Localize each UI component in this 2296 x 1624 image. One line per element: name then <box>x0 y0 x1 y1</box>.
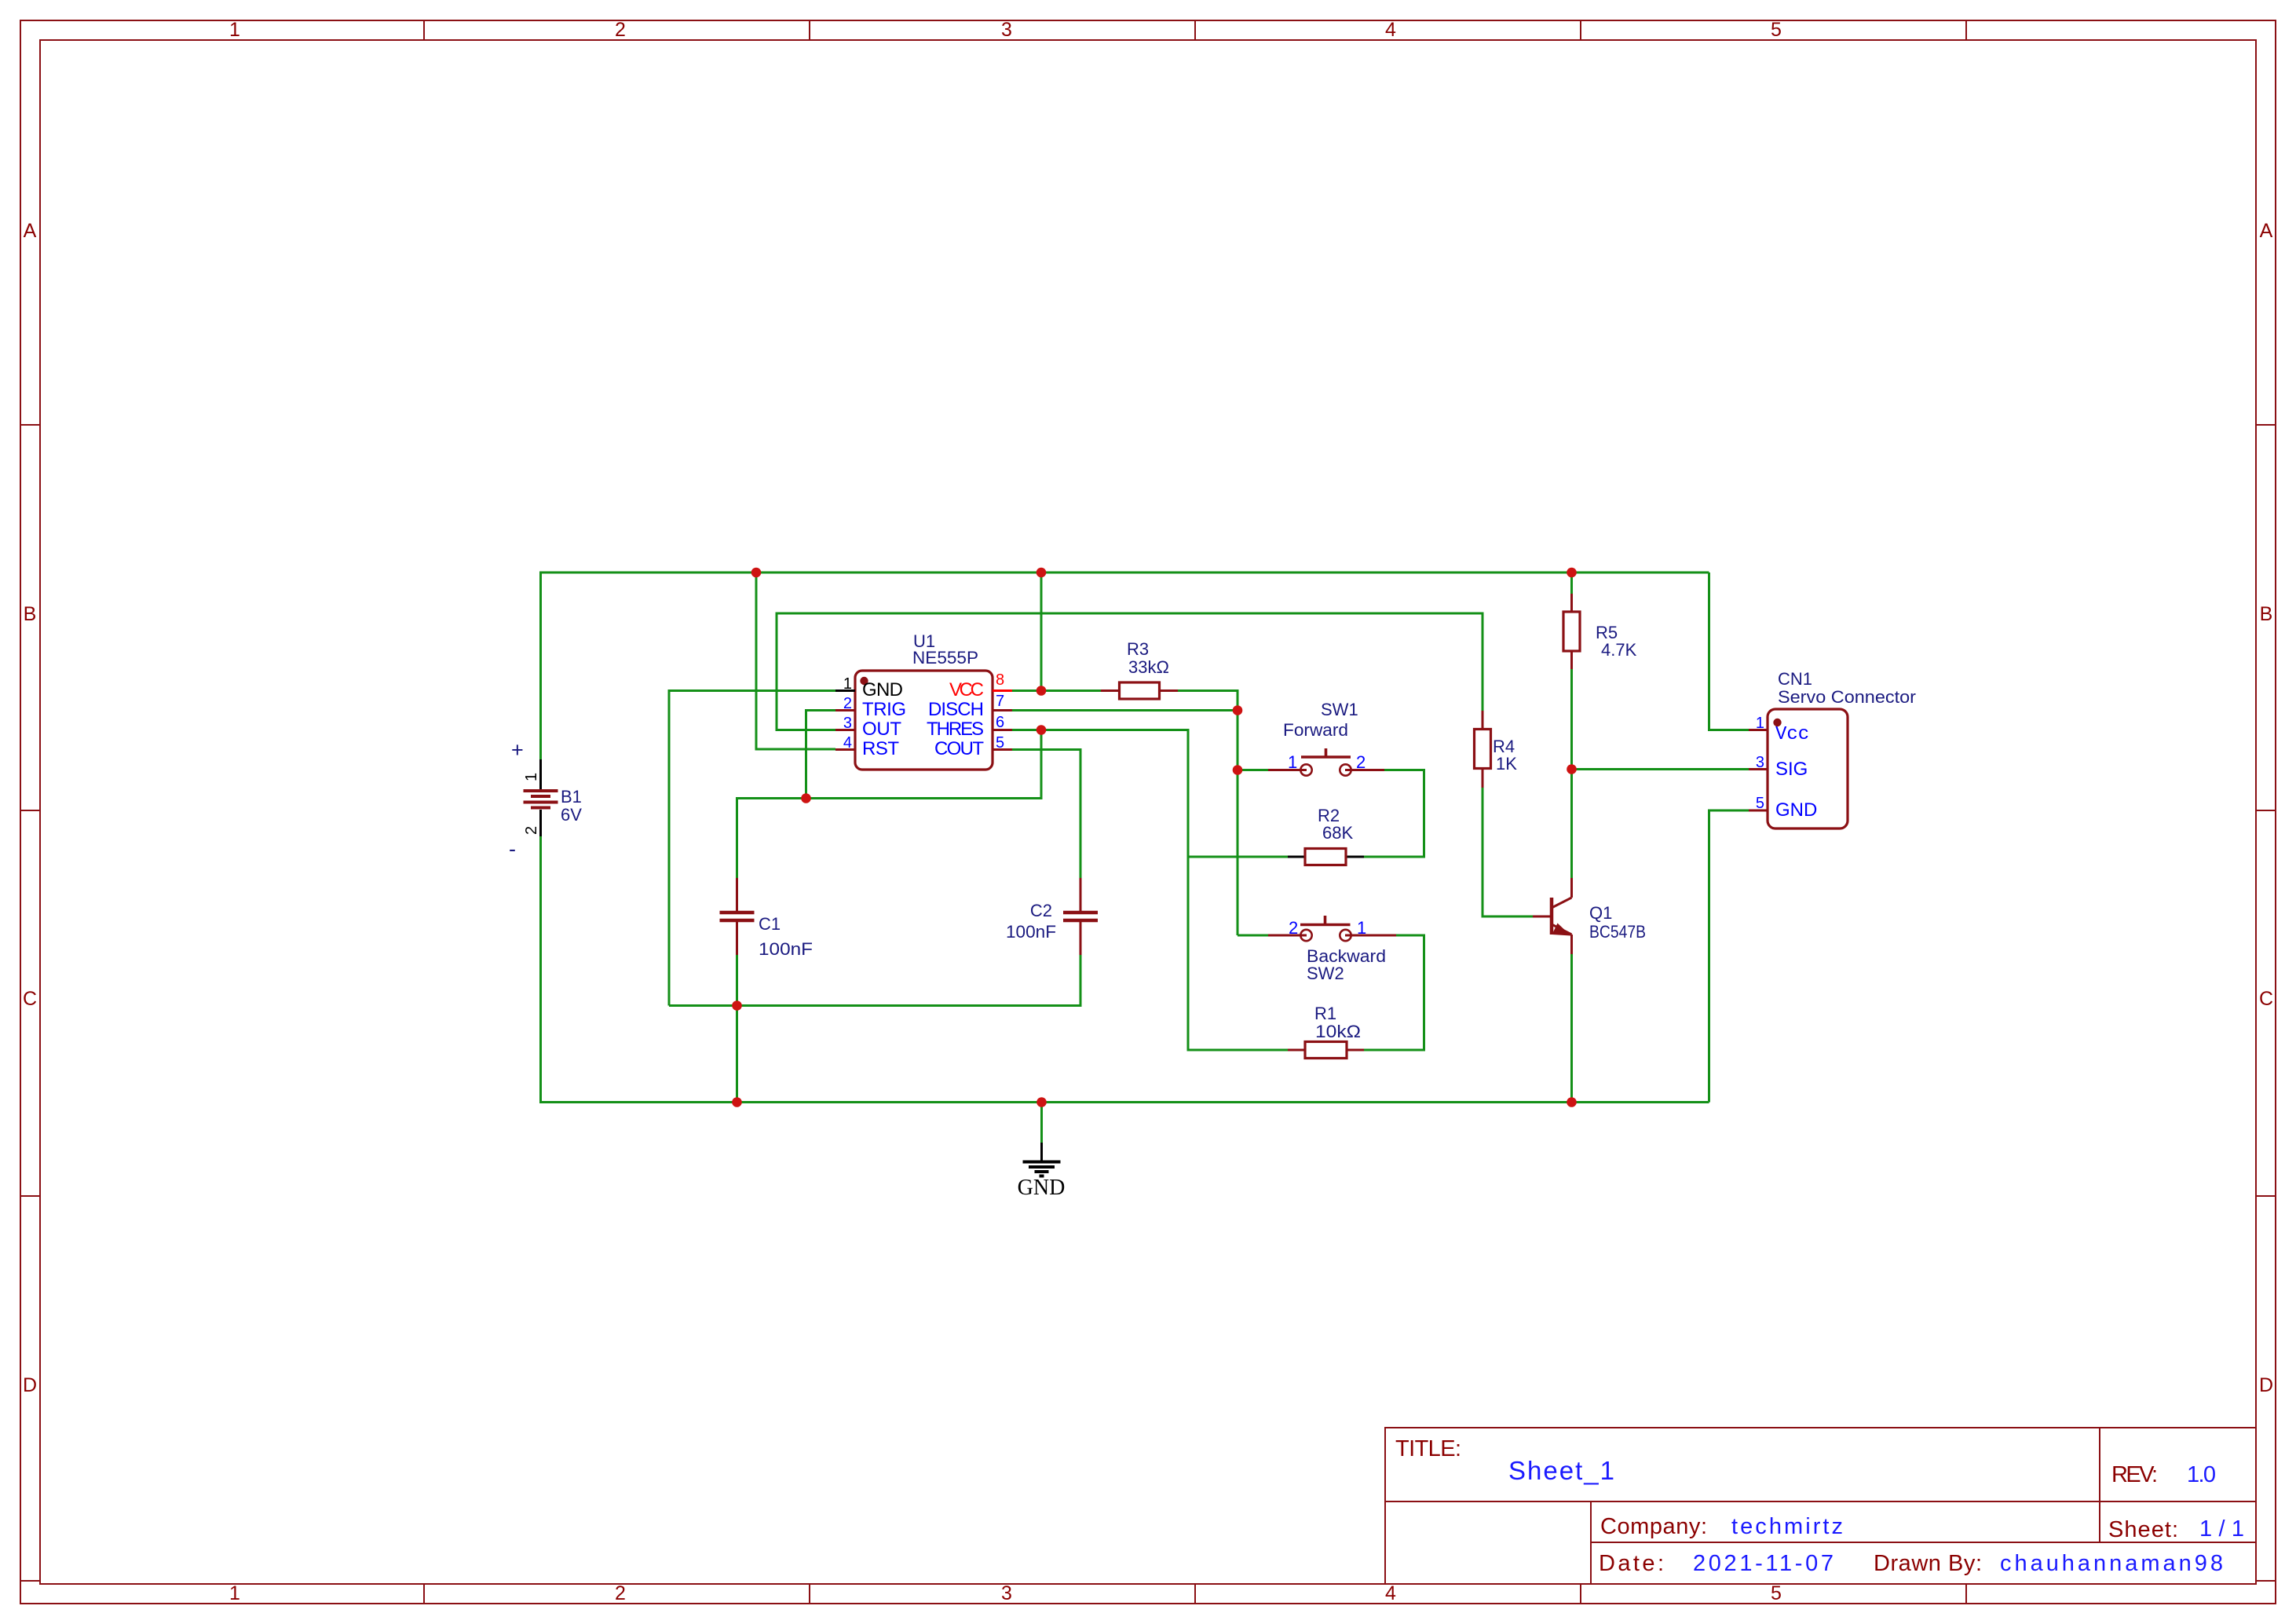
svg-text:3: 3 <box>1756 754 1764 771</box>
wire RST riser <box>756 572 835 749</box>
svg-text:C: C <box>2259 988 2273 1010</box>
border row tick marks left <box>20 425 40 1581</box>
svg-text:2: 2 <box>523 826 540 835</box>
svg-text:B: B <box>2260 603 2273 625</box>
node DISCH/R3 junction <box>1233 705 1243 715</box>
svg-text:NE555P: NE555P <box>912 648 978 668</box>
svg-text:100nF: 100nF <box>759 939 813 959</box>
transistor Q1 BC547B <box>1533 878 1646 954</box>
wire VCC to pin8 <box>1040 572 1043 691</box>
svg-text:4: 4 <box>1385 1582 1396 1604</box>
pin 7 DISCH <box>993 709 1012 711</box>
svg-text:Sheet:: Sheet: <box>2108 1517 2178 1542</box>
node C1 bottom-rail junction <box>732 1097 742 1107</box>
resistor R2 <box>1288 806 1364 865</box>
pin 6 THRES <box>993 729 1012 731</box>
pin 8 VCC <box>993 689 1012 692</box>
svg-text:33kΩ: 33kΩ <box>1128 657 1169 677</box>
ground GND <box>1018 1143 1066 1200</box>
wire THRES to R1 <box>1188 856 1288 1051</box>
wire THRES pin6 <box>1011 730 1188 858</box>
svg-text:GND: GND <box>862 679 903 700</box>
pin 5 GND <box>1749 810 1768 812</box>
pin 2 TRIG <box>835 709 855 711</box>
svg-text:5: 5 <box>1771 1582 1782 1604</box>
wire C1 to bottom rail <box>736 1006 738 1103</box>
wire SW1 pin1 stub <box>1238 769 1268 771</box>
svg-text:5: 5 <box>996 734 1004 752</box>
node SIG junction <box>1567 764 1577 774</box>
wire OUT rail <box>777 613 1483 730</box>
svg-text:2: 2 <box>1289 918 1298 938</box>
svg-text:RST: RST <box>862 738 899 759</box>
svg-text:SIG: SIG <box>1775 759 1808 780</box>
op-amp U1 NE555P timer <box>835 631 1012 770</box>
svg-text:OUT: OUT <box>862 719 901 740</box>
node pin8 junction <box>1036 686 1047 696</box>
svg-text:6V: 6V <box>561 805 582 825</box>
svg-text:5: 5 <box>1756 795 1764 812</box>
svg-text:CN1: CN1 <box>1778 669 1812 689</box>
svg-text:1: 1 <box>1756 715 1764 732</box>
svg-text:Company:: Company: <box>1600 1514 1707 1539</box>
wire THRES to R2 <box>1188 856 1288 858</box>
svg-text:R1: R1 <box>1314 1004 1336 1023</box>
svg-text:1: 1 <box>1357 918 1366 938</box>
wire OUT to R4 top <box>1482 709 1484 712</box>
wire GND symbol stem <box>1040 1103 1043 1143</box>
wire Q1 emitter to GND <box>1570 954 1573 1103</box>
svg-text:C: C <box>23 988 37 1010</box>
pin 5 COUT <box>993 748 1012 751</box>
wire Q1 collector <box>1570 770 1573 879</box>
svg-text:1K: 1K <box>1496 754 1517 774</box>
svg-text:8: 8 <box>996 671 1004 689</box>
svg-text:REV:: REV: <box>2111 1462 2158 1487</box>
svg-text:D: D <box>2259 1374 2273 1396</box>
node Q1 emitter rail junction <box>1567 1097 1577 1107</box>
svg-text:D: D <box>23 1374 37 1396</box>
svg-text:SW1: SW1 <box>1321 700 1358 719</box>
svg-text:7: 7 <box>996 693 1004 710</box>
svg-text:1: 1 <box>1288 752 1297 772</box>
svg-text:DISCH: DISCH <box>928 699 984 720</box>
wire C2 bottom <box>1080 954 1082 1007</box>
svg-text:+: + <box>511 738 524 762</box>
node R5/top-rail junction <box>1567 568 1577 578</box>
svg-text:GND: GND <box>1018 1176 1066 1200</box>
svg-text:THRES: THRES <box>927 719 984 740</box>
svg-text:1: 1 <box>843 675 852 693</box>
svg-text:2: 2 <box>615 19 626 41</box>
U1 pin names <box>862 679 984 759</box>
svg-text:C1: C1 <box>759 914 781 934</box>
svg-text:GND: GND <box>1775 799 1817 821</box>
svg-text:3: 3 <box>1001 19 1012 41</box>
svg-text:1.0: 1.0 <box>2187 1462 2216 1487</box>
capacitor C1 <box>720 878 813 959</box>
wire C1 top link <box>737 730 1042 879</box>
pin 1 GND <box>835 689 855 692</box>
svg-text:chauhannaman98: chauhannaman98 <box>2000 1551 2223 1576</box>
wire VCC top rail <box>541 572 1709 574</box>
wire CN1 Vcc feed <box>1709 572 1749 730</box>
svg-text:1: 1 <box>229 19 240 41</box>
svg-text:techmirtz: techmirtz <box>1731 1514 1843 1539</box>
wire SW2 pin2 lead-in <box>1238 935 1268 937</box>
resistor R3 <box>1101 639 1178 699</box>
node TRIG/C1 junction <box>801 793 811 803</box>
wire R4 bottom to Q1 base <box>1483 788 1533 916</box>
svg-text:1/1: 1/1 <box>2199 1516 2244 1542</box>
svg-text:100nF: 100nF <box>1006 922 1056 942</box>
resistor R5 <box>1563 594 1637 669</box>
svg-text:6: 6 <box>996 714 1004 731</box>
wire R3 right to DISCH <box>1178 691 1238 711</box>
battery B1 <box>509 738 582 861</box>
svg-text:SW2: SW2 <box>1307 964 1344 983</box>
svg-text:10kΩ: 10kΩ <box>1315 1022 1361 1041</box>
pin 1 Vcc <box>1749 729 1768 731</box>
svg-text:3: 3 <box>1001 1582 1012 1604</box>
wire CN1 GND feed <box>1709 810 1749 1103</box>
wire COUT to C2 <box>1011 750 1080 879</box>
switch SW2 (Backward) <box>1268 916 1396 983</box>
border column tick marks top <box>424 20 1966 40</box>
svg-text:4: 4 <box>1385 19 1396 41</box>
svg-text:COUT: COUT <box>934 738 984 759</box>
node SW1 pin1 junction <box>1233 765 1243 775</box>
node VCC/top-rail junction <box>1036 568 1047 578</box>
capacitor C2 <box>1006 878 1098 955</box>
node RST/top-rail junction <box>751 568 762 578</box>
node C1 bottom junction <box>732 1000 742 1011</box>
svg-text:1: 1 <box>523 773 540 781</box>
wire DISCH pin7 <box>1011 709 1238 711</box>
svg-text:-: - <box>509 837 516 861</box>
pin 3 OUT <box>835 729 855 731</box>
wire R5 bottom to SIG <box>1570 669 1573 770</box>
svg-text:2: 2 <box>615 1582 626 1604</box>
connector CN1 Servo Connector <box>1749 669 1916 828</box>
wire TRIG drop <box>806 711 836 799</box>
wire R5 top <box>1570 572 1573 594</box>
wire SW2 pin1 to R1 <box>1364 935 1424 1050</box>
resistor R4 <box>1475 711 1518 788</box>
svg-text:B: B <box>24 603 37 625</box>
wire DISCH drop to SW1 <box>1237 711 1239 936</box>
pin 4 RST <box>835 748 855 751</box>
wire battery plus riser <box>539 572 542 760</box>
U1 pin numbers <box>843 671 1004 752</box>
wire GND bottom rail <box>541 1101 1709 1103</box>
resistor R1 <box>1288 1004 1364 1059</box>
svg-text:Servo Connector: Servo Connector <box>1778 687 1916 707</box>
wire GND mid rail <box>669 1004 1080 1007</box>
svg-text:C2: C2 <box>1030 901 1052 920</box>
wire C1 bottom <box>736 954 738 1006</box>
svg-text:A: A <box>24 220 37 242</box>
svg-text:1: 1 <box>229 1582 240 1604</box>
svg-text:2: 2 <box>1356 752 1366 772</box>
switch SW1 (Forward) <box>1268 700 1384 776</box>
svg-text:2: 2 <box>843 695 852 712</box>
svg-text:Vcc: Vcc <box>1775 724 1809 745</box>
wire pin8 to R3 <box>1011 689 1101 692</box>
svg-text:3: 3 <box>843 715 852 732</box>
svg-text:B1: B1 <box>561 787 582 807</box>
svg-text:R3: R3 <box>1127 639 1149 659</box>
border column tick marks bottom <box>424 1584 1966 1604</box>
svg-text:5: 5 <box>1771 19 1782 41</box>
svg-text:Drawn By:: Drawn By: <box>1874 1551 1982 1576</box>
svg-text:A: A <box>2260 220 2273 242</box>
svg-text:VCC: VCC <box>949 679 984 700</box>
svg-text:4.7K: 4.7K <box>1601 640 1637 660</box>
wire SW1 pin2 to R2 <box>1364 770 1424 858</box>
wire GND pin1 <box>669 691 835 1006</box>
svg-text:Q1: Q1 <box>1589 903 1612 923</box>
svg-text:TRIG: TRIG <box>862 699 906 720</box>
wire battery minus drop <box>539 836 542 1103</box>
node pin6 THRES junction <box>1036 725 1047 735</box>
title block outline <box>1385 1428 2256 1584</box>
wire SIG to CN1 <box>1572 768 1749 770</box>
pin 3 SIG <box>1749 768 1768 770</box>
svg-text:TITLE:: TITLE: <box>1395 1436 1461 1461</box>
border row tick marks right <box>2256 425 2276 1581</box>
svg-text:BC547B: BC547B <box>1589 922 1646 942</box>
svg-text:68K: 68K <box>1322 823 1353 843</box>
node GND symbol junction <box>1036 1097 1047 1107</box>
svg-text:Forward: Forward <box>1283 720 1348 740</box>
svg-text:4: 4 <box>843 734 852 752</box>
